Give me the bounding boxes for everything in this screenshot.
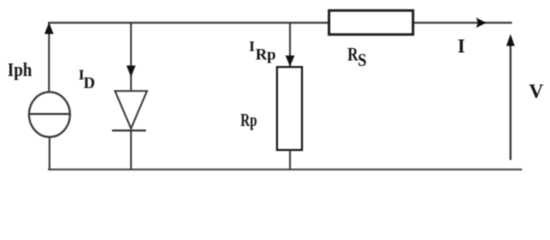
svg-text:V: V: [529, 81, 544, 103]
svg-text:Iph: Iph: [8, 60, 33, 81]
svg-text:I: I: [249, 39, 255, 55]
svg-text:Rp: Rp: [256, 46, 277, 63]
svg-text:I: I: [458, 37, 466, 58]
svg-text:D: D: [84, 75, 96, 92]
svg-text:S: S: [358, 50, 367, 70]
svg-text:Rp: Rp: [241, 110, 258, 130]
